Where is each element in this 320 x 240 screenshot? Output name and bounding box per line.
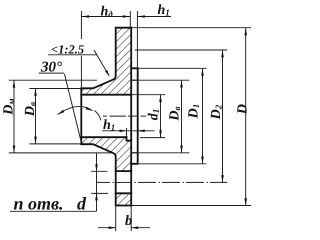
counterbore edge top bbox=[131, 79, 138, 81]
hatching top section bbox=[81, 28, 131, 95]
hatching mid-bottom section bbox=[81, 137, 131, 171]
bore top edge bbox=[81, 94, 131, 96]
svg-text:D: D bbox=[236, 104, 251, 115]
dimension b bbox=[98, 227, 116, 229]
bore bottom edge bbox=[81, 136, 126, 138]
boss on right face bbox=[131, 68, 138, 164]
counterbore edge bottom bbox=[131, 152, 138, 154]
dimension D2 right bbox=[222, 50, 224, 182]
disc right face bbox=[130, 28, 132, 206]
construction line 30deg bbox=[65, 74, 82, 141]
svg-text:n отв. d: n отв. d bbox=[14, 194, 88, 214]
hole bottom edge bbox=[116, 192, 132, 194]
dimension D right bbox=[245, 28, 247, 206]
hatching bottom section bbox=[116, 193, 132, 205]
angle arc with arrows bbox=[58, 106, 93, 114]
dimension Dv right bbox=[181, 80, 183, 153]
dimension Dm left bbox=[13, 80, 15, 153]
dimension h1 top bbox=[137, 16, 171, 18]
hole top edge bbox=[116, 170, 132, 172]
svg-text:b: b bbox=[125, 213, 132, 229]
dimension d hole bbox=[96, 153, 98, 211]
bore recess step bbox=[127, 137, 132, 140]
axis center line bbox=[103, 115, 146, 117]
dimension D1 right bbox=[202, 68, 204, 163]
part outline: disc top face, left face, taper 1:2.5, hub bbox=[81, 28, 131, 206]
dimension h_d bbox=[82, 16, 131, 18]
dimension Dv left bbox=[35, 89, 37, 144]
dimension d1 right bbox=[160, 95, 162, 138]
hole axis center line / D2 extension bbox=[97, 181, 227, 183]
dimension h1 middle bbox=[102, 130, 155, 132]
construction curve right bbox=[94, 111, 101, 121]
